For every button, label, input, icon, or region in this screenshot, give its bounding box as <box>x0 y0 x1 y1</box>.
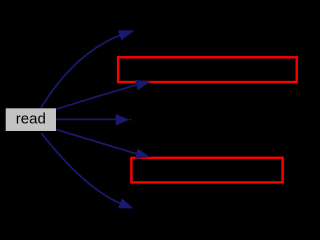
svg-text:read: read <box>16 111 46 128</box>
